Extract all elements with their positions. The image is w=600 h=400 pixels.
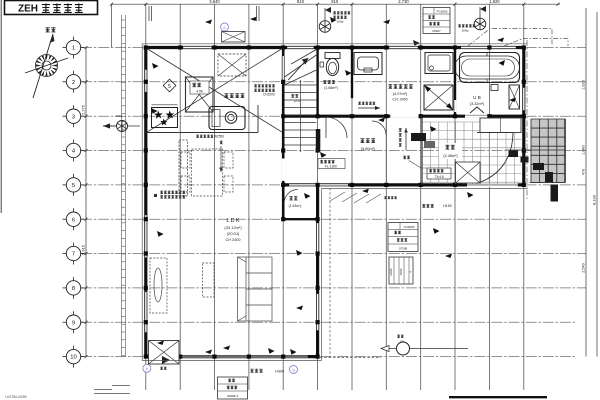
entrance steps (dark) [411,133,426,141]
svg-text:5: 5 [72,183,75,189]
eave outline [142,44,527,361]
window: LDK south sliding [160,355,308,358]
dining table (dashed) [181,149,233,196]
washing machine pan [425,53,453,74]
wall: LDK east exterior [316,183,319,358]
extra vent triangles [151,60,505,355]
label: トイレ [323,80,326,83]
doma storage X-box [456,162,481,183]
hall closet door arc [372,121,386,135]
wall: UB west [454,48,456,117]
svg-text:L D K: L D K [226,218,240,224]
corner unit (X-box) [149,341,180,365]
wall: bottom exterior (LDK south) [144,355,319,358]
svg-text:6: 6 [72,217,75,223]
svg-text:2,275: 2,275 [81,104,86,115]
svg-text:73×18: 73×18 [435,175,444,179]
label: 収納 [289,196,293,200]
svg-text:LH37Bx13285: LH37Bx13285 [5,395,27,399]
hall up arrow + vertical note [405,128,407,150]
kitchen cross braces (X) [147,49,282,133]
downpipe marks [149,6,259,21]
skylight void box [186,77,214,112]
wall posts (pillars) [144,45,526,358]
svg-text:2,730: 2,730 [398,0,409,4]
label: 玄関 [439,143,462,159]
window: bath top [461,46,516,49]
upper void dashed X-box [218,54,246,76]
svg-text:(2.48m²): (2.48m²) [443,154,458,158]
svg-text:AU2066: AU2066 [404,225,415,229]
svg-text:(3.32m²): (3.32m²) [470,102,485,106]
porch tiles (gray) [531,119,565,183]
svg-text:CH 2400: CH 2400 [226,238,241,242]
label table: 玄関収納 [427,168,451,179]
svg-text:ZEH: ZEH [18,4,38,15]
wall: south of hall/entrance [282,183,526,186]
svg-text:2,540: 2,540 [582,263,586,273]
svg-text:8: 8 [72,286,75,292]
bottom-right ground line [449,396,547,398]
label: ホール [360,138,364,142]
grid columns (thin) [112,4,524,390]
door: UB entry (gap) [465,114,491,117]
svg-text:(1.63m²): (1.63m²) [289,204,302,208]
svg-text:(1.66m²): (1.66m²) [324,86,338,90]
window: kitchen top [183,46,211,49]
range hood fan + arrow (kitchen left) [117,121,128,132]
mirror cabinet (X box) [424,85,453,110]
window: LDK left 1 [145,215,148,257]
grid line number circles 1-10 [66,40,80,54]
toilet bowl [326,58,338,75]
hall door arc (to washroom) [326,117,347,138]
svg-text:8,190: 8,190 [592,194,597,205]
floor hatch arrow [358,107,380,109]
top dimension line [112,3,561,5]
vent marker triangles [152,17,516,354]
window schedule table (bottom) [218,377,248,399]
svg-text:FG2066: FG2066 [437,10,448,14]
svg-text:CH: 2400: CH: 2400 [392,98,407,102]
window: washroom top [389,46,417,49]
svg-text:1,920: 1,920 [582,80,586,90]
entrance door leaf + arc [477,132,513,134]
blue marker circles [221,23,229,31]
stairs arrow [288,58,308,80]
window: stairs top [287,46,313,49]
svg-text:FL-1300: FL-1300 [325,165,337,169]
window schedule table (top right) [423,8,450,34]
window schedule table (mid right) [388,223,418,252]
svg-text:470: 470 [582,169,586,175]
svg-text:10: 10 [70,355,76,361]
svg-text:100: 100 [400,340,405,344]
left dimension line [85,48,87,357]
svg-text:A0300: A0300 [389,268,393,276]
service dash-dot lines (heat pump) [468,29,568,47]
UB door fold [470,107,484,113]
kitchen sink [209,107,245,130]
svg-text:H300: H300 [275,369,284,373]
2F wall line overlay (west) [122,15,126,357]
kitchen counter front line [146,132,258,134]
note box: wall finish [154,194,157,197]
LDK height note [220,141,223,144]
diamond vent mark [163,79,176,92]
svg-text:06907: 06907 [432,29,441,33]
svg-text:W2550: W2550 [214,135,224,139]
shoe cabinet [480,118,521,133]
label: 洗面脱衣室 [388,84,392,88]
label: 階段 [291,94,294,97]
TV board (dashed) with TV [150,258,167,313]
stairs treads [285,85,317,145]
svg-text:5: 5 [168,84,171,90]
porch step edges [506,119,565,183]
door: entrance (gap) [467,183,518,186]
bathtub [460,53,520,83]
compass 真北 (north) [36,55,57,76]
svg-text:3: 3 [72,114,75,120]
wall: washroom band south (y=row3) [282,115,524,118]
svg-text:(20.0J): (20.0J) [227,231,240,236]
wall: toilet east [351,48,353,99]
window: LDK east 1 [316,223,319,251]
hall/entrance divider line [385,116,387,185]
svg-text:(33.12m²): (33.12m²) [224,225,242,230]
stairs up-line [299,80,301,152]
stairs winders [285,50,317,86]
vent fan (bath) [474,18,486,30]
wall: closet south [283,218,317,220]
porch step hatch (below south wall) [330,192,381,203]
low table (dashed) [203,263,215,297]
entrance tiled floor [422,122,522,184]
stove (3 burners) [152,108,178,128]
svg-text:100φ: 100φ [116,114,123,118]
wall: kitchen east / stairs west [282,48,285,220]
wall: top exterior [144,46,525,49]
svg-text:07308: 07308 [399,247,408,251]
window: LDK left 2 [145,292,148,332]
svg-text:2: 2 [72,80,75,86]
window: kitchen left [145,70,148,92]
svg-text:4.96: 4.96 [196,90,203,94]
kitchen note (hanging cabinet) [254,84,257,87]
toilet paper holder [320,62,324,67]
property dash-dot line [526,40,528,200]
svg-text:3,640: 3,640 [209,0,220,4]
svg-text:910: 910 [331,0,339,4]
label: キッチン [224,93,228,97]
svg-text:1: 1 [72,46,75,52]
UB counter (X rect) [509,85,520,109]
svg-text:1,080: 1,080 [582,145,586,155]
sofa (dashed) [238,257,273,321]
door: washroom (gap) [390,114,418,117]
svg-text:1,820: 1,820 [489,0,500,4]
UB drain [491,85,498,91]
svg-text:20608-4: 20608-4 [227,394,238,398]
svg-text:H150: H150 [443,204,452,208]
bottom small steps left [94,386,130,394]
wall: toilet west [316,48,318,117]
svg-text:7: 7 [72,252,75,258]
window: hall south [289,184,348,187]
drain circle [389,348,468,350]
svg-text:(4.07m²): (4.07m²) [393,92,408,96]
svg-text:100φ: 100φ [337,20,344,24]
vanity counter [354,53,382,75]
door: kitchen-hall gap [282,159,285,181]
svg-text:CH2200: CH2200 [263,93,275,97]
label: 深基礎H300 [250,369,253,373]
grid rows (thin) [81,48,586,357]
window: east wall [522,88,525,110]
svg-text:11020: 11020 [399,268,403,276]
window: LDK east 2 [316,294,319,330]
svg-text:100φ: 100φ [462,29,469,33]
porch steps (black) [509,151,559,202]
stairs bottom wall segment [316,129,321,152]
label: 深基礎H150 [422,204,425,207]
inspection note box [318,159,345,169]
svg-text:(2.4: (2.4 [294,99,300,103]
vent fan (washroom) [319,21,331,33]
fridge (dashed) [179,140,188,196]
svg-text:9: 9 [72,320,75,326]
wall: east exterior (UB/entrance) [522,46,525,186]
wall: left exterior [144,46,147,358]
left sheet border line [0,0,2,213]
title block: ZEH水準住宅 [5,1,98,15]
svg-text:5,915: 5,915 [81,244,86,255]
svg-text:U B: U B [473,95,481,100]
roof box with X (top) [222,32,246,43]
toilet tank [325,53,340,59]
window schedule table (vertical) [389,257,413,284]
kitchen spec note [196,135,199,138]
svg-text:910: 910 [297,0,305,4]
svg-text:(5.80m²): (5.80m²) [361,147,376,151]
dashed 2F overlay east [329,188,331,358]
right dimension lines [585,8,587,357]
closet door arc [284,190,298,204]
